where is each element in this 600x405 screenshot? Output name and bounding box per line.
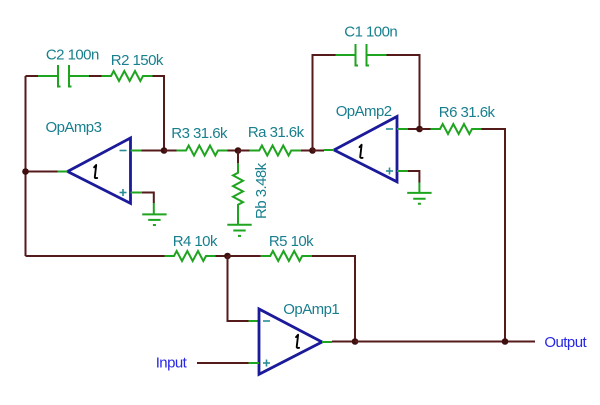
wire: C1 left vertical from Ra junction up to C1 row [313,55,336,151]
op-amp U2 OpAmp2 (mirrored, output apex at left) [334,117,397,182]
ground: OpAmp3 + input [142,203,166,225]
wire: OpAmp2 output lead (green) to Ra junction [324,149,334,151]
wire: OpAmp1 output to output junction [332,341,355,343]
wire: OpAmp1 output lead (green) [322,341,332,343]
wire: Rb bottom lead to ground (green) [237,212,239,225]
wire: between C2 and R2 [89,75,102,77]
wire: R4/R5 junction down and right to OpAmp1 - input [228,256,249,321]
ground: below Rb [227,225,251,236]
wire: center junction to Ra left lead [238,150,250,152]
resistor R3 (31.6k) [177,146,228,156]
wire: OpAmp2 output maroon to junction [313,150,325,152]
node: R3/Ra/Rb junction [235,147,242,154]
node: OpAmp3 output junction [22,168,29,175]
wire: OpAmp3 output maroon to junction [26,171,58,173]
wire: OpAmp1 inverting input stub (green) [249,320,260,322]
wire: R3 right lead to center junction [228,150,239,152]
resistor R5 (10k) [261,251,312,261]
wire: OpAmp2 non-inverting input stub (green) [397,170,408,172]
wire: R4 right lead to R4/R5 junction [216,255,228,257]
svg-text:R2 150k: R2 150k [111,52,164,69]
wire: center junction down to Rb [237,151,239,164]
wire: junction to R3 left lead [164,150,177,152]
wire: OpAmp2 inverting input stub (green) [397,128,408,130]
wire: junction to R5 left lead [228,255,261,257]
op-amp U3 OpAmp3 (mirrored, output apex at left) [68,138,131,203]
svg-text:Output: Output [544,334,587,351]
resistor Ra (31.6k) [250,146,301,156]
op-amp U1 OpAmp1 (output apex at right) [259,309,322,374]
wire: OpAmp3 non-inverting input stub (green) [131,192,142,194]
wire: R5 right lead to corner and down to output junction [312,256,355,342]
svg-text:Input: Input [156,354,188,371]
node: Output junction [502,338,509,345]
wire: Ra right lead to OpAmp2 output junction [301,150,313,152]
capacitor C1 (100n) [336,44,387,67]
svg-text:C2 100n: C2 100n [46,47,99,64]
wire: OpAmp3 + input to ground corner [142,193,154,204]
wire: left vertical corner to R4 left lead [26,255,165,257]
wire: OpAmp3 output lead (green) to left junction [58,171,68,173]
node: C1/R6/OpAmp2- junction [416,126,423,133]
svg-text:Rb 3.48k: Rb 3.48k [253,162,270,219]
svg-text:OpAmp1: OpAmp1 [283,301,339,318]
wire: OpAmp1 non-inverting input stub (green) [249,362,260,364]
resistor R6 (31.6k) [431,124,482,134]
wire: left feedback vertical (C2 loop) from top-left corner down to R4 row [25,76,27,256]
wire: OpAmp2 + input to ground corner [408,171,419,183]
svg-text:OpAmp2: OpAmp2 [336,103,392,120]
svg-text:R4 10k: R4 10k [173,233,218,250]
ground: OpAmp2 + input [407,183,431,204]
svg-text:Ra 31.6k: Ra 31.6k [248,124,305,141]
svg-text:R6 31.6k: R6 31.6k [439,104,496,121]
svg-text:OpAmp3: OpAmp3 [46,119,102,136]
svg-text:R3 31.6k: R3 31.6k [171,125,228,142]
wire: R6 right lead to corner and down to output row [482,129,506,342]
wire: output row to Output port [355,341,535,343]
wire: R2 right to corner and down to R3 junction [153,76,165,151]
resistor R4 (10k) [165,251,216,261]
svg-text:C1 100n: C1 100n [344,23,397,40]
wire: junction to R6 left lead [420,128,431,130]
resistor Rb (3.48k, vertical) [233,163,243,214]
svg-text:R5 10k: R5 10k [269,233,314,250]
node: OpAmp1 output junction [352,338,359,345]
node: R2/R3 junction [161,147,168,154]
wire: C1 right lead to corner and down to R6 junction [387,55,420,129]
wire: Input port wire [197,362,249,364]
wire: OpAmp3 inverting input to R3 junction [142,150,165,152]
capacitor C2 (100n) [38,65,89,88]
node: Ra/OpAmp2-output/C1 junction [309,147,316,154]
wire: OpAmp3 inverting input stub (green) [131,150,142,152]
node: R4/R5/OpAmp1- junction [224,253,231,260]
resistor R2 (150k) [102,71,153,81]
wire: OpAmp2 - input to C1/R6 junction [408,128,420,130]
wire: top-left row y=76 corner to C2 left lead [26,75,39,77]
